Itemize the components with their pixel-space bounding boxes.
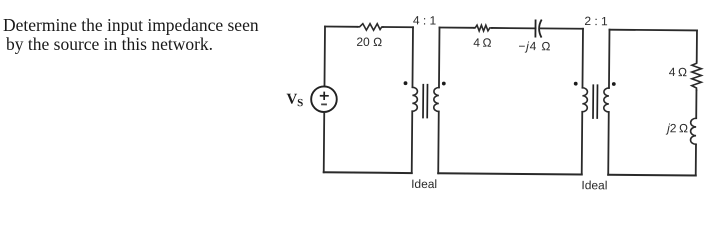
wire: T2 primary bottom lead bbox=[581, 112, 584, 175]
transformer T1 primary winding bbox=[412, 87, 417, 111]
wire: right side loop3 upper bbox=[696, 30, 698, 61]
wire: right side loop3 middle bbox=[695, 90, 697, 118]
svg-text:4 Ω: 4 Ω bbox=[669, 65, 687, 79]
wire: T2 primary top lead bbox=[581, 29, 584, 88]
wire: right side loop3 lower bbox=[695, 144, 697, 175]
transformer T2 primary winding bbox=[582, 88, 587, 112]
svg-text:4 : 1: 4 : 1 bbox=[413, 13, 437, 27]
wire: bottom rail loop3 bbox=[608, 174, 695, 177]
transformer T1 core bbox=[423, 84, 428, 119]
wire: top rail loop3 bbox=[609, 29, 696, 32]
svg-text:j2 Ω: j2 Ω bbox=[665, 121, 688, 135]
svg-text:−j4 Ω: −j4 Ω bbox=[518, 39, 551, 53]
wire: top rail loop2 middle segment bbox=[492, 27, 535, 29]
node A: top rail of loop 1 (left segment) bbox=[325, 26, 357, 28]
T1 primary polarity dot bbox=[404, 81, 408, 85]
svg-text:VS: VS bbox=[286, 92, 303, 110]
svg-text:2 : 1: 2 : 1 bbox=[584, 14, 608, 28]
wire: top rail loop2 right segment bbox=[540, 27, 583, 29]
wire: left side of loop1 lower bbox=[323, 112, 326, 172]
capacitor -j4 ohm bbox=[535, 20, 541, 38]
resistor 4ohm (load) bbox=[692, 62, 702, 91]
wire: top rail loop1 right segment bbox=[383, 26, 413, 28]
wire: T1 primary bottom lead bbox=[411, 111, 414, 173]
inductor j2 ohm bbox=[690, 118, 696, 144]
wire: left side of loop1 upper bbox=[323, 27, 326, 87]
wire: T1 primary top lead bbox=[411, 27, 414, 87]
svg-text:4 Ω: 4 Ω bbox=[473, 36, 491, 50]
problem statement text bbox=[3, 16, 259, 54]
wire: T2 secondary top lead bbox=[608, 30, 611, 88]
transformer T1 secondary winding bbox=[434, 87, 439, 111]
transformer T2 core bbox=[593, 84, 598, 119]
svg-text:Ideal: Ideal bbox=[411, 177, 437, 191]
wire: T1 secondary top lead bbox=[438, 27, 441, 87]
svg-text:20 Ω: 20 Ω bbox=[356, 35, 382, 49]
svg-text:Ideal: Ideal bbox=[581, 178, 607, 192]
T2 secondary polarity dot bbox=[612, 82, 616, 86]
T2 primary polarity dot bbox=[574, 82, 578, 86]
transformer T2 secondary winding bbox=[604, 88, 609, 112]
wire: bottom rail loop1 bbox=[324, 171, 412, 174]
wire: T1 secondary bottom lead bbox=[437, 111, 440, 173]
resistor 4ohm (series) bbox=[474, 25, 492, 31]
source Vs bbox=[311, 86, 337, 112]
wire: T2 secondary bottom lead bbox=[607, 112, 610, 175]
wire: top rail loop2 left segment bbox=[439, 26, 473, 28]
T1 secondary polarity dot bbox=[442, 82, 446, 86]
wire: bottom rail loop2 bbox=[438, 173, 581, 174]
resistor 20ohm bbox=[357, 24, 383, 31]
